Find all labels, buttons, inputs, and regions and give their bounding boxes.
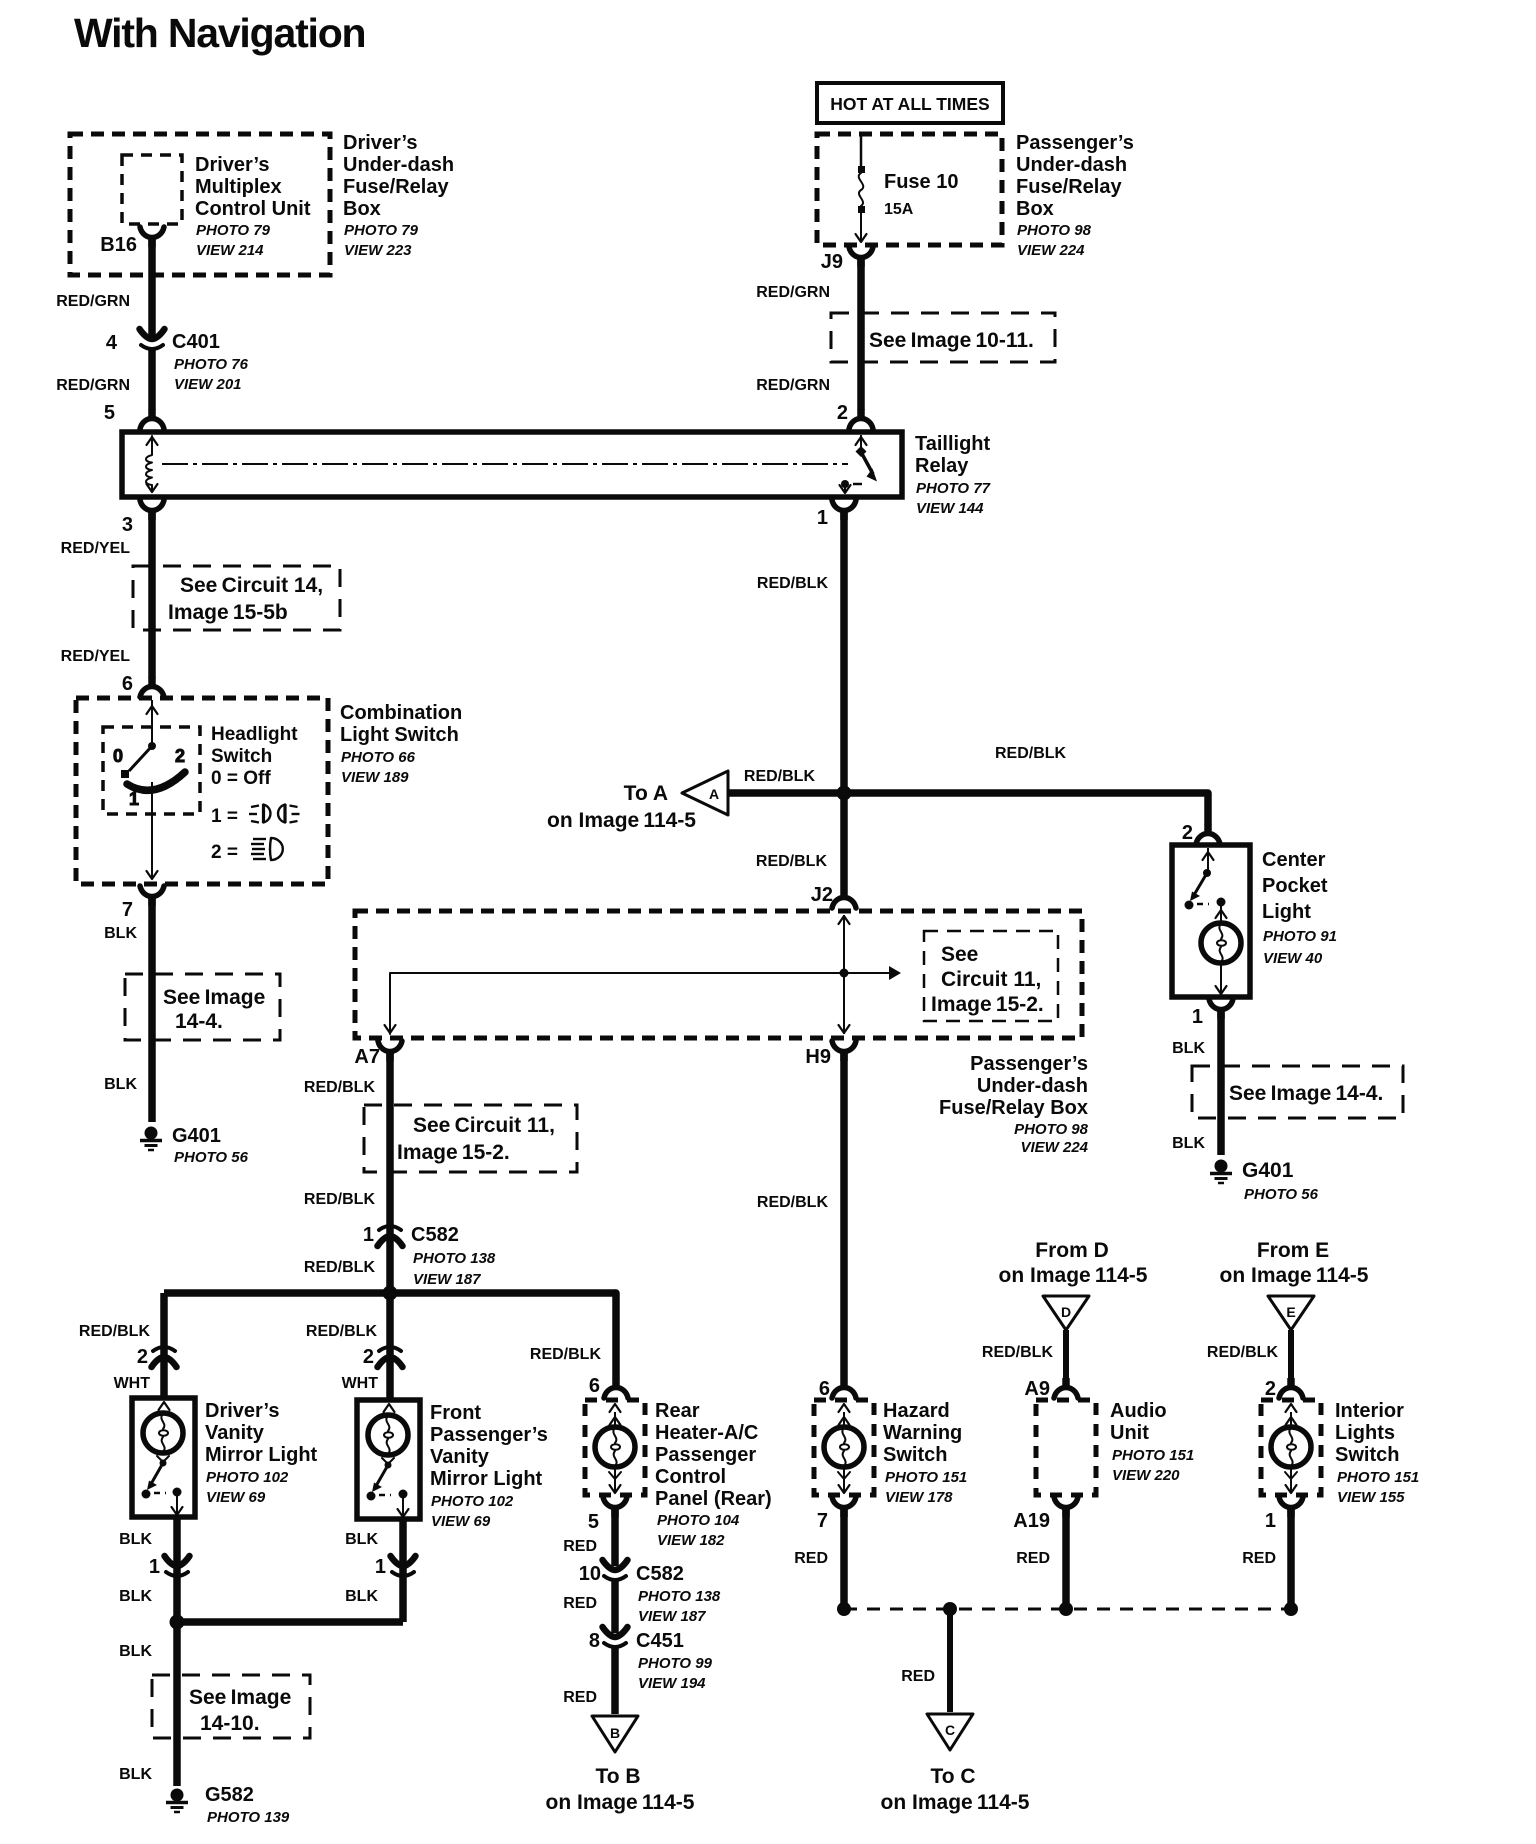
svg-text:RED/BLK: RED/BLK: [304, 1191, 376, 1208]
svg-text:See Circuit 11,: See Circuit 11,: [413, 1114, 555, 1137]
svg-text:BLK: BLK: [104, 925, 137, 942]
svg-text:Switch: Switch: [211, 746, 272, 767]
wire rear heater to C582 (RED): [563, 1507, 615, 1566]
node: bus junction audio: [1059, 1602, 1073, 1616]
rear heater-A/C passenger control panel box (dashed): [585, 1400, 645, 1495]
svg-text:Image 15-2.: Image 15-2.: [931, 993, 1044, 1016]
svg-text:A19: A19: [1013, 1510, 1050, 1532]
ground G582: [166, 1784, 290, 1826]
svg-text:RED/BLK: RED/BLK: [1207, 1344, 1279, 1361]
svg-text:RED/GRN: RED/GRN: [756, 377, 830, 394]
svg-text:BLK: BLK: [119, 1643, 152, 1660]
label: Hazard Warning Switch: [883, 1400, 967, 1506]
svg-text:BLK: BLK: [345, 1588, 378, 1605]
svg-text:Unit: Unit: [1110, 1422, 1149, 1444]
svg-text:Center: Center: [1262, 849, 1326, 871]
wire junction down to J2 (RED/BLK): [756, 793, 844, 888]
driver's multiplex control unit (inner dashed box): [122, 155, 182, 224]
svg-text:E: E: [1286, 1304, 1295, 1320]
front passenger's vanity switch: [367, 1458, 409, 1517]
pin 2 (center pocket light): [1182, 822, 1220, 844]
svg-text:BLK: BLK: [1172, 1135, 1205, 1152]
front passenger's vanity lamp: [368, 1404, 408, 1455]
svg-text:VIEW 220: VIEW 220: [1112, 1467, 1180, 1484]
svg-text:See Image: See Image: [163, 986, 265, 1009]
svg-text:6: 6: [122, 673, 133, 695]
svg-text:PHOTO 77: PHOTO 77: [916, 480, 991, 497]
svg-text:Interior: Interior: [1335, 1400, 1404, 1422]
connector arrow D: [1043, 1296, 1089, 1330]
svg-text:VIEW 69: VIEW 69: [206, 1489, 266, 1506]
svg-text:VIEW 224: VIEW 224: [1017, 242, 1085, 259]
pin 6 (rear heater panel): [589, 1375, 628, 1398]
internal link to A7 with arrow to note: [385, 966, 902, 1034]
svg-text:PHOTO 151: PHOTO 151: [885, 1469, 967, 1486]
svg-text:VIEW 40: VIEW 40: [1263, 950, 1323, 967]
wire junction branch rail: [164, 1289, 616, 1297]
svg-text:on Image 114-5: on Image 114-5: [546, 1791, 695, 1814]
interior lights switch box (dashed): [1261, 1400, 1321, 1495]
driver's vanity lamp: [143, 1402, 183, 1453]
svg-text:Driver’s: Driver’s: [195, 154, 270, 176]
svg-text:PHOTO 91: PHOTO 91: [1263, 928, 1337, 945]
node: bus junction interior: [1284, 1602, 1298, 1616]
svg-text:G401: G401: [1242, 1159, 1294, 1182]
svg-text:1: 1: [375, 1556, 386, 1578]
svg-text:Panel (Rear): Panel (Rear): [655, 1488, 772, 1510]
wire E to interior lights switch (RED/BLK): [1207, 1330, 1291, 1378]
svg-text:1: 1: [149, 1556, 160, 1578]
svg-text:Combination: Combination: [340, 702, 462, 724]
pin B16: [100, 227, 164, 256]
svg-text:RED/YEL: RED/YEL: [61, 648, 131, 665]
svg-text:2: 2: [1265, 1378, 1276, 1400]
connector C401, pin 4: [106, 329, 249, 393]
svg-text:Fuse 10: Fuse 10: [884, 171, 958, 193]
svg-text:From D: From D: [1035, 1239, 1109, 1262]
svg-text:See: See: [941, 943, 978, 966]
note: See Image 14-10.: [152, 1675, 310, 1738]
svg-text:BLK: BLK: [119, 1766, 152, 1783]
svg-text:Control: Control: [655, 1466, 726, 1488]
svg-text:on Image 114-5: on Image 114-5: [881, 1791, 1030, 1814]
svg-text:RED: RED: [563, 1689, 597, 1706]
svg-text:Driver’s: Driver’s: [343, 132, 418, 154]
svg-text:B: B: [610, 1725, 620, 1741]
svg-text:Fuse/Relay Box: Fuse/Relay Box: [939, 1097, 1088, 1119]
svg-text:5: 5: [104, 402, 115, 424]
wire A7 down (RED/BLK): [304, 1051, 390, 1293]
svg-text:BLK: BLK: [104, 1076, 137, 1093]
connector C582 pin 10: [579, 1560, 721, 1625]
svg-text:RED/GRN: RED/GRN: [756, 284, 830, 301]
svg-text:VIEW 187: VIEW 187: [413, 1271, 481, 1288]
label: Interior Lights Switch: [1335, 1400, 1419, 1506]
connector arrow E: [1268, 1296, 1314, 1330]
svg-text:VIEW 194: VIEW 194: [638, 1675, 706, 1692]
svg-text:Headlight: Headlight: [211, 724, 298, 745]
wire to driver's vanity (RED/BLK, WHT): [79, 1293, 177, 1398]
center pocket light lamp: [1201, 906, 1241, 994]
svg-text:1: 1: [817, 507, 828, 529]
svg-text:To A: To A: [624, 782, 668, 805]
svg-text:2 =: 2 =: [211, 842, 238, 863]
svg-text:Passenger: Passenger: [655, 1444, 756, 1466]
wire junction to To-A arrow: [728, 789, 844, 797]
svg-text:Image 15-5b: Image 15-5b: [168, 601, 288, 624]
svg-text:HOT AT ALL TIMES: HOT AT ALL TIMES: [830, 94, 989, 114]
svg-text:RED/BLK: RED/BLK: [79, 1323, 151, 1340]
pin 3: [122, 500, 164, 536]
svg-text:A7: A7: [354, 1046, 380, 1068]
relay internal dash-dot link: [162, 463, 848, 465]
wire audio unit to bus (RED): [1016, 1507, 1066, 1609]
svg-text:RED/BLK: RED/BLK: [995, 745, 1067, 762]
svg-text:7: 7: [817, 1510, 828, 1532]
svg-text:BLK: BLK: [1172, 1040, 1205, 1057]
svg-text:VIEW 187: VIEW 187: [638, 1608, 706, 1625]
wire junction to center pocket light (RED/BLK): [844, 745, 1208, 824]
label: Center Pocket Light: [1262, 849, 1337, 967]
svg-text:BLK: BLK: [119, 1588, 152, 1605]
fuse 10 15A: [856, 136, 959, 242]
node: junction RED/BLK vanity feed: [383, 1286, 398, 1301]
svg-text:VIEW 224: VIEW 224: [1020, 1139, 1088, 1156]
driver's vanity switch: [142, 1456, 183, 1515]
wire hazard to bus (RED): [794, 1507, 844, 1609]
svg-text:WHT: WHT: [114, 1375, 151, 1392]
svg-text:RED: RED: [1242, 1550, 1276, 1567]
pin 5: [104, 402, 164, 429]
svg-text:RED/BLK: RED/BLK: [530, 1346, 602, 1363]
interior lights switch lamp: [1271, 1404, 1311, 1493]
taillight relay coil: [146, 436, 158, 492]
HOT AT ALL TIMES box: [817, 83, 1003, 123]
svg-text:PHOTO 76: PHOTO 76: [174, 356, 249, 373]
svg-text:3: 3: [122, 514, 133, 536]
svg-text:7: 7: [122, 899, 133, 921]
note: See Circuit 11, Image 15-2 (inside box): [924, 931, 1058, 1021]
pin 7: [122, 886, 164, 921]
wire H9 down to hazard switch (RED/BLK): [757, 1051, 844, 1378]
pin 7 (hazard warning switch): [817, 1497, 856, 1532]
svg-text:5: 5: [588, 1511, 599, 1533]
wire driver's vanity pin1 (BLK): [119, 1517, 189, 1622]
pin A7: [354, 1041, 402, 1068]
svg-text:6: 6: [589, 1375, 600, 1397]
svg-text:Fuse/Relay: Fuse/Relay: [343, 176, 449, 198]
svg-text:See Image: See Image: [189, 1686, 291, 1709]
pin 6 (headlight switch): [122, 673, 164, 697]
svg-text:1: 1: [1265, 1510, 1276, 1532]
svg-text:PHOTO 98: PHOTO 98: [1014, 1121, 1089, 1138]
passenger's under-dash fuse/relay box (middle, dashed): [355, 911, 1082, 1038]
passenger's under-dash fuse/relay box (top, dashed): [817, 134, 1002, 245]
wire C582 to C451 (RED): [563, 1581, 615, 1633]
icon: headlamp (2=): [251, 838, 283, 860]
label: Front Passenger's Vanity Mirror Light: [430, 1402, 548, 1530]
svg-text:1 =: 1 =: [211, 806, 238, 827]
svg-text:Box: Box: [1016, 198, 1054, 220]
wire vanity ground rail: [177, 1618, 403, 1626]
svg-text:1: 1: [129, 789, 139, 809]
connector arrow B (To B on Image 114-5): [546, 1716, 695, 1814]
wire J9 to relay pin2 (RED/GRN): [756, 258, 861, 410]
connector C582 pin 1: [363, 1224, 496, 1288]
icon: parking lamps (1=): [249, 804, 300, 823]
svg-text:RED/BLK: RED/BLK: [304, 1259, 376, 1276]
wire relay pin1 down to junction (RED/BLK): [744, 510, 844, 793]
connector arrow A (To A on Image 114-5): [547, 771, 728, 832]
rear heater panel lamp: [595, 1404, 635, 1493]
hazard warning switch box (dashed): [814, 1400, 874, 1495]
headlight switch (inner dashed box): [103, 727, 200, 814]
internal link J2 to H9: [839, 915, 850, 1034]
svg-text:Image 15-2.: Image 15-2.: [397, 1141, 510, 1164]
svg-text:RED/GRN: RED/GRN: [56, 377, 130, 394]
pin 1 (center pocket light): [1192, 999, 1233, 1028]
label: Driver's Multiplex Control Unit: [195, 154, 311, 259]
wire C401 to relay pin5 (RED/GRN): [56, 350, 152, 410]
svg-text:4: 4: [106, 332, 118, 354]
svg-text:H9: H9: [805, 1046, 831, 1068]
svg-text:0 = Off: 0 = Off: [211, 768, 271, 789]
svg-text:Passenger’s: Passenger’s: [430, 1424, 548, 1446]
node: bus junction C-tap: [943, 1602, 957, 1616]
label: Driver's Vanity Mirror Light: [205, 1400, 318, 1506]
svg-text:D: D: [1061, 1304, 1071, 1320]
front passenger's vanity mirror light box: [357, 1400, 420, 1519]
svg-text:PHOTO 66: PHOTO 66: [341, 749, 416, 766]
driver's vanity mirror light box: [132, 1398, 195, 1517]
svg-text:BLK: BLK: [119, 1531, 152, 1548]
svg-text:VIEW 214: VIEW 214: [196, 242, 264, 259]
svg-text:Control Unit: Control Unit: [195, 198, 311, 220]
svg-text:Rear: Rear: [655, 1400, 700, 1422]
svg-text:VIEW 182: VIEW 182: [657, 1532, 725, 1549]
combination light switch (dashed enclosure): [76, 698, 328, 884]
pin J2: [811, 884, 856, 908]
svg-text:PHOTO 102: PHOTO 102: [206, 1469, 289, 1486]
pin A9 (audio unit): [1024, 1378, 1078, 1400]
svg-text:Under-dash: Under-dash: [977, 1075, 1088, 1097]
svg-text:RED: RED: [1016, 1550, 1050, 1567]
label: From D on Image 114-5: [999, 1239, 1148, 1287]
svg-text:PHOTO 98: PHOTO 98: [1017, 222, 1092, 239]
taillight relay box: [122, 432, 902, 497]
svg-text:RED: RED: [563, 1595, 597, 1612]
label: Taillight Relay: [915, 433, 991, 517]
ground G401 (right): [1210, 1159, 1319, 1203]
wire to rear heater panel (RED/BLK): [530, 1293, 616, 1378]
wire to front passenger's vanity (RED/BLK, WHT): [306, 1293, 403, 1400]
node: junction RED/BLK: [837, 786, 852, 801]
svg-text:VIEW 189: VIEW 189: [341, 769, 409, 786]
svg-text:With Navigation: With Navigation: [74, 10, 365, 56]
svg-text:VIEW 201: VIEW 201: [174, 376, 242, 393]
svg-text:C451: C451: [636, 1630, 684, 1652]
svg-text:8: 8: [589, 1630, 600, 1652]
svg-text:G582: G582: [205, 1784, 254, 1806]
svg-text:Passenger’s: Passenger’s: [970, 1053, 1088, 1075]
pin H9: [805, 1041, 856, 1068]
svg-text:Light: Light: [1262, 901, 1311, 923]
pin 5 (rear heater panel): [588, 1497, 627, 1533]
svg-text:J2: J2: [811, 884, 833, 906]
note: See Circuit 11, Image 15-2.: [364, 1105, 577, 1172]
note: See Image 14-4. (right): [1192, 1066, 1403, 1118]
svg-text:VIEW 69: VIEW 69: [431, 1513, 491, 1530]
node: bus junction hazard: [837, 1602, 851, 1616]
svg-text:Taillight: Taillight: [915, 433, 991, 455]
svg-text:RED: RED: [563, 1538, 597, 1555]
svg-text:Relay: Relay: [915, 455, 969, 477]
svg-text:Vanity: Vanity: [205, 1422, 265, 1444]
svg-text:PHOTO 102: PHOTO 102: [431, 1493, 514, 1510]
pin 2 (relay): [837, 402, 873, 429]
svg-text:RED/GRN: RED/GRN: [56, 293, 130, 310]
svg-text:RED: RED: [794, 1550, 828, 1567]
svg-text:Multiplex: Multiplex: [195, 176, 282, 198]
wire front passenger's vanity pin1 (BLK): [345, 1519, 415, 1622]
svg-text:Pocket: Pocket: [1262, 875, 1328, 897]
svg-text:G401: G401: [172, 1125, 221, 1147]
svg-text:See Image 14-4.: See Image 14-4.: [1229, 1082, 1383, 1105]
svg-text:C582: C582: [411, 1224, 459, 1246]
note: See Image 10-11.: [831, 313, 1055, 362]
svg-text:RED: RED: [901, 1668, 935, 1685]
wire bus to C arrow (RED): [901, 1609, 950, 1712]
label: Headlight Switch 0=Off: [211, 724, 298, 863]
wire interior lights switch to bus (RED): [1242, 1507, 1291, 1609]
svg-text:2: 2: [837, 402, 848, 424]
label: Passenger's Under-dash Fuse/Relay Box: [1016, 132, 1134, 259]
svg-text:RED/BLK: RED/BLK: [304, 1079, 376, 1096]
wire center pocket light to ground (BLK): [1172, 1009, 1221, 1155]
svg-text:15A: 15A: [884, 201, 914, 218]
svg-text:Light Switch: Light Switch: [340, 724, 459, 746]
svg-text:WHT: WHT: [342, 1375, 379, 1392]
svg-text:Vanity: Vanity: [430, 1446, 490, 1468]
svg-text:VIEW 178: VIEW 178: [885, 1489, 953, 1506]
svg-text:14-4.: 14-4.: [175, 1010, 223, 1033]
headlight switch rotary contact: [113, 700, 185, 879]
svg-text:VIEW 155: VIEW 155: [1337, 1489, 1405, 1506]
connector arrow C (To C on Image 114-5): [881, 1714, 1030, 1814]
svg-text:BLK: BLK: [345, 1531, 378, 1548]
svg-text:Lights: Lights: [1335, 1422, 1395, 1444]
svg-text:0: 0: [113, 746, 123, 766]
svg-text:VIEW 144: VIEW 144: [916, 500, 984, 517]
svg-text:1: 1: [1192, 1006, 1203, 1028]
svg-text:To C: To C: [930, 1765, 975, 1788]
svg-text:C: C: [945, 1722, 955, 1738]
svg-text:on Image 114-5: on Image 114-5: [999, 1264, 1148, 1287]
pin A19 (audio unit): [1013, 1497, 1078, 1532]
svg-text:Box: Box: [343, 198, 381, 220]
center pocket light box: [1172, 845, 1250, 997]
svg-text:RED/BLK: RED/BLK: [982, 1344, 1054, 1361]
svg-text:Switch: Switch: [1335, 1444, 1399, 1466]
svg-text:1: 1: [363, 1224, 374, 1246]
svg-text:Driver’s: Driver’s: [205, 1400, 280, 1422]
svg-text:2: 2: [175, 746, 185, 766]
driver's under-dash fuse/relay box (dashed enclosure): [70, 134, 330, 275]
pin 6 (hazard warning switch): [819, 1378, 856, 1400]
svg-text:Warning: Warning: [883, 1422, 962, 1444]
svg-text:PHOTO 138: PHOTO 138: [638, 1588, 721, 1605]
pin J9: [821, 247, 873, 273]
svg-text:Under-dash: Under-dash: [343, 154, 454, 176]
svg-text:RED/BLK: RED/BLK: [306, 1323, 378, 1340]
svg-text:RED/BLK: RED/BLK: [744, 768, 816, 785]
svg-text:Under-dash: Under-dash: [1016, 154, 1127, 176]
wire D to audio unit (RED/BLK): [982, 1330, 1066, 1378]
svg-text:Front: Front: [430, 1402, 481, 1424]
label: Combination Light Switch: [340, 702, 462, 786]
svg-text:Mirror Light: Mirror Light: [430, 1468, 543, 1490]
svg-text:PHOTO 151: PHOTO 151: [1112, 1447, 1194, 1464]
label: Passenger's Under-dash Fuse/Relay Box: [939, 1053, 1089, 1156]
svg-text:10: 10: [579, 1563, 601, 1585]
label: Rear Heater-A/C Passenger Control Panel (Rear): [655, 1400, 772, 1549]
svg-text:Passenger’s: Passenger’s: [1016, 132, 1134, 154]
svg-text:B16: B16: [100, 234, 137, 256]
svg-text:RED/BLK: RED/BLK: [757, 1194, 829, 1211]
label: Audio Unit: [1110, 1400, 1194, 1484]
svg-text:To B: To B: [595, 1765, 640, 1788]
svg-text:PHOTO 104: PHOTO 104: [657, 1512, 740, 1529]
svg-text:PHOTO 56: PHOTO 56: [174, 1149, 249, 1166]
svg-text:A9: A9: [1024, 1378, 1050, 1400]
svg-text:See Image 10-11.: See Image 10-11.: [869, 329, 1034, 352]
svg-text:J9: J9: [821, 251, 843, 273]
svg-text:Fuse/Relay: Fuse/Relay: [1016, 176, 1122, 198]
pin 1 (relay): [817, 500, 856, 529]
svg-text:RED/YEL: RED/YEL: [61, 540, 131, 557]
wire junction to G582 (BLK): [119, 1622, 177, 1786]
svg-text:Hazard: Hazard: [883, 1400, 950, 1422]
svg-text:C401: C401: [172, 331, 220, 353]
pin 2 (interior lights switch): [1265, 1378, 1303, 1400]
svg-text:PHOTO 79: PHOTO 79: [196, 222, 271, 239]
svg-text:See Circuit 14,: See Circuit 14,: [180, 574, 323, 597]
svg-text:PHOTO 138: PHOTO 138: [413, 1250, 496, 1267]
svg-text:Switch: Switch: [883, 1444, 947, 1466]
wire B16 to C401 (RED/GRN): [56, 238, 152, 336]
wire dashed bus RED: [844, 1608, 1291, 1611]
svg-text:on Image 114-5: on Image 114-5: [1220, 1264, 1369, 1287]
svg-text:From E: From E: [1257, 1239, 1329, 1262]
svg-text:Heater-A/C: Heater-A/C: [655, 1422, 758, 1444]
svg-text:VIEW 223: VIEW 223: [344, 242, 412, 259]
svg-text:Mirror Light: Mirror Light: [205, 1444, 318, 1466]
svg-text:A: A: [709, 786, 719, 802]
wire C451 to B arrow (RED): [563, 1648, 615, 1714]
svg-text:RED/BLK: RED/BLK: [756, 853, 828, 870]
note: See Circuit 14, Image 15-5b: [133, 566, 340, 630]
hazard warning switch lamp: [824, 1404, 864, 1493]
svg-text:PHOTO 79: PHOTO 79: [344, 222, 419, 239]
svg-text:2: 2: [363, 1346, 374, 1368]
svg-text:Circuit 11,: Circuit 11,: [941, 968, 1041, 991]
node: junction BLK: [170, 1615, 185, 1630]
svg-text:6: 6: [819, 1378, 830, 1400]
svg-text:C582: C582: [636, 1563, 684, 1585]
svg-text:Audio: Audio: [1110, 1400, 1167, 1422]
svg-text:PHOTO 56: PHOTO 56: [1244, 1186, 1319, 1203]
wire headlight switch to ground (BLK): [104, 896, 152, 1122]
